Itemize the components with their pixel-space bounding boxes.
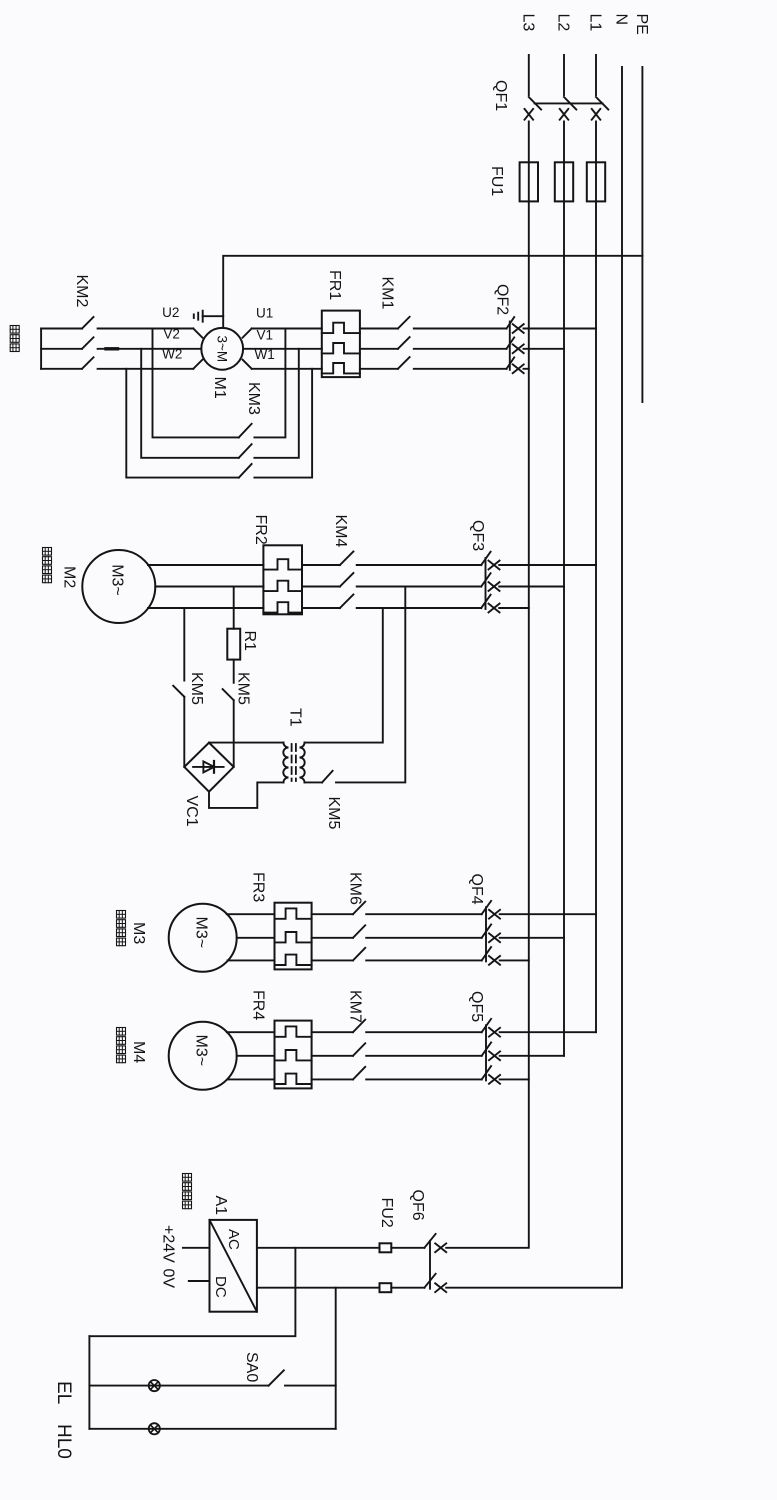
diode VC1 internal xyxy=(193,766,224,768)
wire rail L1 xyxy=(595,55,597,1032)
svg-text:L1: L1 xyxy=(587,14,604,32)
svg-text:+24V: +24V xyxy=(160,1225,177,1263)
contactor KM4 xyxy=(340,552,354,566)
svg-text:KM7: KM7 xyxy=(347,990,364,1023)
wire star bus xyxy=(40,329,42,369)
wire HL0 feed xyxy=(335,1288,337,1429)
power supply A1 xyxy=(210,1220,257,1312)
svg-text:QF1: QF1 xyxy=(492,80,509,111)
svg-text:QF3: QF3 xyxy=(469,520,486,551)
wire KM5c up xyxy=(336,587,405,783)
lamp EL xyxy=(149,1380,160,1391)
svg-text:U2: U2 xyxy=(162,305,179,320)
svg-text:FR3: FR3 xyxy=(250,872,267,902)
svg-text:FU2: FU2 xyxy=(378,1198,395,1228)
wire rail N xyxy=(446,67,622,1288)
wire QF5 to KM7 xyxy=(366,1031,482,1033)
contactor KM1 xyxy=(398,317,410,329)
wire FR1 to M1 xyxy=(252,328,322,330)
svg-text:L3: L3 xyxy=(519,14,536,32)
wire W tap to KM5b xyxy=(183,608,185,681)
wire FR4 to M4 xyxy=(227,1031,275,1033)
wire EL branch lower xyxy=(89,1385,268,1387)
svg-text:PE: PE xyxy=(633,14,650,35)
svg-text:M3: M3 xyxy=(130,922,147,944)
contactor KM3 xyxy=(153,329,239,438)
contactor KM5 c xyxy=(322,771,333,783)
svg-text:KM4: KM4 xyxy=(332,515,349,548)
contactor KM5 b xyxy=(173,686,184,697)
wire VC1 east jog to T1 secondary xyxy=(209,782,284,808)
svg-text:L2: L2 xyxy=(555,14,572,32)
svg-text:KM1: KM1 xyxy=(379,277,396,310)
fuse FU1 xyxy=(587,162,605,201)
svg-text:QF4: QF4 xyxy=(468,874,485,905)
svg-text:U1: U1 xyxy=(256,306,273,321)
breaker QF6 xyxy=(435,1243,446,1252)
svg-text:N: N xyxy=(613,14,630,26)
svg-text:FR4: FR4 xyxy=(250,990,267,1020)
svg-text:KM5: KM5 xyxy=(188,672,205,705)
svg-text:M1: M1 xyxy=(211,377,228,399)
wire earth stub xyxy=(203,315,224,317)
svg-text:EL: EL xyxy=(53,1381,74,1404)
svg-text:A1: A1 xyxy=(212,1196,229,1216)
svg-text:KM5: KM5 xyxy=(235,672,252,705)
wire rail PE xyxy=(641,67,643,402)
svg-text:QF5: QF5 xyxy=(468,991,485,1022)
svg-text:M3~: M3~ xyxy=(109,564,126,596)
motor M2 xyxy=(82,550,155,623)
svg-text:VC1: VC1 xyxy=(183,796,200,827)
fuse FU2 xyxy=(380,1243,392,1252)
wire QF1 linkage xyxy=(535,102,603,104)
wire T1 primary left xyxy=(305,608,383,743)
contactor KM6 xyxy=(353,902,365,915)
label M3 chinese xyxy=(117,911,126,919)
svg-text:AC: AC xyxy=(225,1229,242,1250)
svg-text:W2: W2 xyxy=(162,347,182,362)
breaker QF2 xyxy=(524,328,597,330)
svg-text:DC: DC xyxy=(212,1276,229,1298)
resistor R1 xyxy=(227,629,240,660)
motor M4 xyxy=(169,1022,237,1090)
svg-text:V1: V1 xyxy=(257,327,274,342)
wire T1 core xyxy=(295,744,297,781)
wire QF6 linkage xyxy=(429,1241,431,1289)
wire FR2 to M2 xyxy=(148,564,263,566)
ground xyxy=(202,311,204,322)
thermal relay FR3 xyxy=(275,903,312,970)
label main motor chinese xyxy=(10,326,19,334)
wire rail L3 xyxy=(446,55,529,1248)
label A1 chinese xyxy=(183,1174,192,1182)
wire HL0 branch xyxy=(89,1428,335,1430)
svg-text:R1: R1 xyxy=(241,631,258,652)
motor M3 xyxy=(169,904,237,972)
svg-text:M2: M2 xyxy=(61,566,78,588)
svg-text:T1: T1 xyxy=(287,708,304,727)
wire VC1 west to T1 xyxy=(209,742,284,744)
wire QF4 linkage xyxy=(485,907,487,961)
wire lamp tap xyxy=(89,1248,295,1336)
wire QF2 linkage xyxy=(509,322,511,370)
svg-text:0V: 0V xyxy=(160,1269,177,1289)
svg-text:FR1: FR1 xyxy=(326,270,343,300)
svg-text:FU1: FU1 xyxy=(488,166,505,196)
svg-text:M3~: M3~ xyxy=(193,1035,210,1067)
breaker QF3 xyxy=(499,564,596,566)
svg-text:KM5: KM5 xyxy=(325,797,342,830)
contactor KM5 a xyxy=(223,689,234,700)
wire QF5 linkage xyxy=(485,1025,487,1080)
wire 0V stub xyxy=(189,1280,210,1282)
wire QF3 linkage xyxy=(485,558,487,609)
svg-text:M3~: M3~ xyxy=(193,917,210,949)
label M4 chinese xyxy=(117,1028,126,1036)
wire EL branch upper xyxy=(285,1385,336,1387)
svg-text:QF2: QF2 xyxy=(494,284,511,315)
svg-text:SA0: SA0 xyxy=(243,1352,260,1382)
svg-text:FR2: FR2 xyxy=(252,515,269,545)
wire lamp bus xyxy=(88,1336,90,1429)
breaker QF4 xyxy=(500,913,596,915)
svg-text:V2: V2 xyxy=(163,326,180,341)
lamp HL0 xyxy=(149,1423,160,1434)
svg-text:3~M: 3~M xyxy=(214,335,229,362)
svg-text:KM6: KM6 xyxy=(347,872,364,905)
svg-text:QF6: QF6 xyxy=(409,1190,426,1221)
wire R1 tap xyxy=(233,587,235,629)
svg-text:W1: W1 xyxy=(254,347,274,362)
motor M1 xyxy=(201,328,243,370)
contactor KM2 star xyxy=(82,317,94,329)
contactor KM7 xyxy=(353,1020,365,1032)
svg-text:KM3: KM3 xyxy=(245,382,262,415)
svg-text:KM2: KM2 xyxy=(73,275,90,308)
rectifier VC1 xyxy=(184,743,233,792)
wire QF4 to KM6 xyxy=(366,913,482,915)
node junction dash xyxy=(106,347,118,350)
switch SA0 xyxy=(269,1370,284,1385)
wire rail L2 xyxy=(563,55,565,1056)
wire T1 primary right lower xyxy=(305,781,323,783)
wire QF3 to KM4 xyxy=(357,564,482,566)
svg-text:M4: M4 xyxy=(130,1041,147,1063)
wire FR3 to M3 xyxy=(227,913,275,915)
wire M1 to KM2 xyxy=(193,329,202,338)
wire QF2 to KM1 xyxy=(414,328,507,330)
thermal relay FR1 xyxy=(322,311,360,378)
breaker QF5 xyxy=(500,1031,596,1033)
label M2 chinese xyxy=(43,548,52,556)
wire R1 to KM5a xyxy=(233,660,235,683)
thermal relay FR2 xyxy=(263,545,302,614)
wire PE drop xyxy=(223,256,642,328)
thermal relay FR4 xyxy=(275,1021,312,1089)
breaker QF1 xyxy=(595,98,598,120)
transformer T1 xyxy=(283,743,288,783)
wire 24V stub xyxy=(183,1247,210,1249)
svg-text:HL0: HL0 xyxy=(53,1424,74,1459)
